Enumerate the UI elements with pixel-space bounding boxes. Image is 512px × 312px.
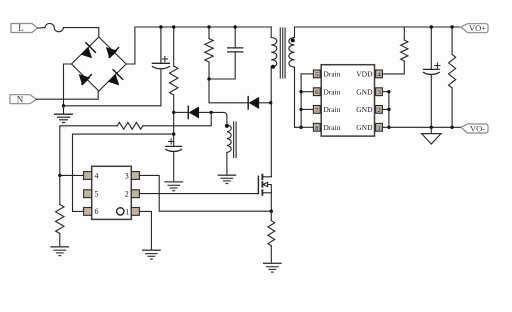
svg-text:GND: GND (356, 105, 373, 114)
bridge diode top-right (anode top corner, cathode right) (106, 48, 118, 59)
wire pin 2 stub (382, 108, 389, 110)
IC U1 pin 2 box (376, 106, 383, 114)
IC U1 pin 1 box (376, 123, 383, 131)
svg-text:6: 6 (95, 207, 99, 216)
wire L to fuse (38, 27, 46, 29)
svg-text:8: 8 (315, 125, 318, 132)
wire fuse to bridge AC top (63, 28, 98, 37)
capacitor C5 bottom lead (430, 76, 432, 128)
ground aux winding (218, 175, 235, 183)
transformer aux winding (225, 124, 231, 175)
wire aux node down to feedback resistor (143, 112, 211, 125)
wire GND pin 1 to VO- rail (382, 126, 461, 128)
node HV rail to C2 (234, 25, 237, 28)
controller U2 pin 5 box (84, 190, 92, 198)
node snubber RC junction (207, 77, 210, 80)
wire R2 left to pin4 node (60, 126, 118, 176)
svg-text:N: N (17, 94, 24, 104)
resistor load R7 (449, 55, 456, 89)
node drain junction (269, 101, 272, 104)
wire bus to pin 7 (301, 108, 313, 110)
node VO- rail to C5 (430, 126, 433, 129)
ground sense resistor (264, 263, 281, 272)
wire N to bridge AC bottom (37, 91, 99, 99)
resistor sense R5 (268, 211, 275, 263)
wire pin 3 stub (382, 91, 389, 93)
resistor startup R1 (170, 66, 178, 95)
wire aux winding top (211, 112, 227, 124)
transformer T1 core (280, 28, 285, 78)
node drain bus pin 6 (299, 90, 302, 93)
svg-text:VDD: VDD (356, 70, 373, 79)
node primary DC minus junction (62, 104, 65, 107)
capacitor snubber C2 top lead (234, 27, 236, 48)
capacitor C5 plates (424, 69, 440, 74)
svg-text:1: 1 (126, 207, 130, 216)
terminal flag VO+ (461, 23, 488, 33)
svg-text:L: L (18, 23, 24, 33)
terminal flag L (11, 23, 38, 33)
node MOSFET source junction (270, 210, 273, 213)
node HV rail to C1 (159, 25, 162, 28)
resistor feedback R2 horizontal (117, 122, 143, 129)
svg-text:1: 1 (377, 125, 380, 132)
controller U2 pin 1 box (131, 208, 139, 216)
wire U2 pin 2 to MOSFET gate (139, 193, 258, 195)
ground U2 pin 1 (143, 250, 160, 259)
IC U1 pin 8 box (313, 123, 320, 131)
controller U2 pin 2 box (131, 190, 139, 198)
svg-text:GND: GND (356, 87, 373, 96)
node GND bus pin 1 (387, 126, 390, 129)
wire U2 pin 6 to VDD node (73, 134, 174, 211)
controller IC U2 body (92, 166, 132, 219)
capacitor bulk electrolytic C1 top lead (160, 27, 162, 63)
wire HV+ rail (135, 26, 271, 28)
capacitor C1 plus mark (162, 56, 167, 61)
IC U1 pin 7 box (313, 106, 320, 114)
terminal flag N (10, 94, 37, 104)
svg-text:Drain: Drain (323, 70, 340, 79)
fuse F1 (45, 23, 63, 31)
node VO+ rail to C5 (430, 25, 433, 28)
IC U1 pin 5 box (313, 70, 320, 78)
resistor load R7 top lead (451, 27, 453, 55)
IC U1 pin 6 box (313, 88, 320, 96)
svg-text:3: 3 (377, 89, 380, 96)
wire bus to pin 5 (301, 73, 313, 75)
node GND bus pin 3 (387, 90, 390, 93)
resistor snubber R3 top lead (208, 27, 210, 39)
ground VDD cap (165, 182, 182, 191)
transistor Q1 MOSFET (258, 103, 271, 211)
resistor VDD R6 (401, 40, 408, 61)
svg-text:2: 2 (377, 107, 380, 114)
wire R7 bottom lead (451, 88, 453, 127)
bridge rectifier BR1 frame (72, 37, 127, 91)
svg-text:Drain: Drain (323, 87, 340, 96)
wire pin4 node to controller pin 4 (60, 174, 84, 176)
node drain bus pin 7 (299, 108, 302, 111)
wire drain pin bus (300, 74, 302, 127)
transformer T1 primary winding (271, 27, 277, 103)
wire R3 bottom to snubber node (208, 62, 210, 79)
svg-text:5: 5 (315, 71, 318, 78)
wire bus to pin 6 (301, 91, 313, 93)
wire secondary bottom to drain pin bus (295, 126, 302, 128)
node HV rail to R3 (207, 25, 210, 28)
wire R1 bottom to VDD node (173, 95, 175, 146)
svg-text:4: 4 (95, 171, 99, 180)
capacitor C4 bottom lead (173, 153, 175, 182)
diode clamp D1 (248, 97, 271, 109)
svg-text:Drain: Drain (323, 105, 340, 114)
svg-text:VO-: VO- (470, 123, 485, 133)
wire VDD pin to resistor (382, 61, 404, 74)
ground output triangle (422, 127, 441, 144)
wire R6 to VO+ rail (403, 27, 405, 40)
capacitor snubber C2 plates (228, 48, 243, 52)
node D2 cathode junction (172, 111, 175, 114)
node VO+ rail to R7 (450, 25, 453, 28)
controller U2 pin 4 box (84, 172, 92, 180)
controller U2 pin 6 box (84, 208, 92, 216)
node drain bus pin 8 (299, 126, 302, 129)
wire DC minus rail to bulk cap (64, 105, 161, 107)
svg-text:2: 2 (125, 190, 129, 199)
wire GND bus (388, 92, 390, 128)
capacitor VDD electrolytic C4 plus mark (169, 139, 174, 144)
svg-text:3: 3 (125, 171, 129, 180)
capacitor output electrolytic C5 top lead (430, 27, 432, 69)
svg-text:5: 5 (95, 190, 99, 199)
node VO- rail to R7 (450, 126, 453, 129)
capacitor C1 plates (152, 63, 169, 68)
node HV rail to R1 (172, 25, 175, 28)
diode D2 aux rectifier (174, 106, 212, 118)
node aux winding junction (210, 111, 213, 114)
controller U2 pin labels (95, 171, 130, 216)
node pin4 junction (58, 174, 61, 177)
svg-text:Drain: Drain (323, 123, 340, 132)
svg-text:GND: GND (356, 123, 373, 132)
wire U2 pin 3 to sense node (139, 175, 271, 211)
IC U1 pin numbers (315, 71, 381, 131)
wire C2 bottom to snubber node (209, 52, 235, 79)
bridge diode top-left (anode left corner, cathode top) (81, 43, 95, 58)
node GND bus pin 2 (387, 108, 390, 111)
node VDD cap junction (172, 132, 175, 135)
controller U2 pin1 marker circle (117, 208, 124, 215)
ground primary minus (55, 106, 73, 123)
capacitor VDD electrolytic C4 plates (166, 146, 182, 151)
IC U1 labels (323, 70, 373, 132)
wire snubber node to clamp diode (209, 79, 248, 103)
IC U1 body (321, 65, 374, 136)
transformer aux core (234, 122, 237, 158)
IC U1 pin 4 box (376, 70, 383, 78)
resistor R4 lower left (56, 175, 64, 246)
svg-text:VO+: VO+ (469, 23, 486, 33)
wire bridge negative corner to ground node (64, 64, 72, 106)
bridge diode bottom-right (anode bottom corner, cathode right) (108, 70, 122, 85)
wire bridge positive corner up to HV rail (126, 27, 135, 64)
wire bus to pin 8 (301, 126, 313, 128)
IC U1 pin 3 box (376, 88, 383, 96)
resistor snubber R3 (205, 39, 213, 63)
wire secondary top to VO+ rail (295, 26, 462, 28)
controller U2 pin 3 box (131, 172, 139, 180)
resistor startup R1 top lead (173, 27, 175, 66)
bridge diode bottom-left (anode left corner, cathode bottom) (79, 75, 91, 86)
wire U2 pin 1 to ground (139, 211, 151, 250)
capacitor C1 bottom lead (160, 70, 162, 106)
transformer T1 secondary winding (289, 27, 295, 127)
capacitor C5 plus mark (435, 63, 440, 68)
terminal flag VO- (461, 123, 488, 133)
ground R4 (51, 247, 68, 256)
